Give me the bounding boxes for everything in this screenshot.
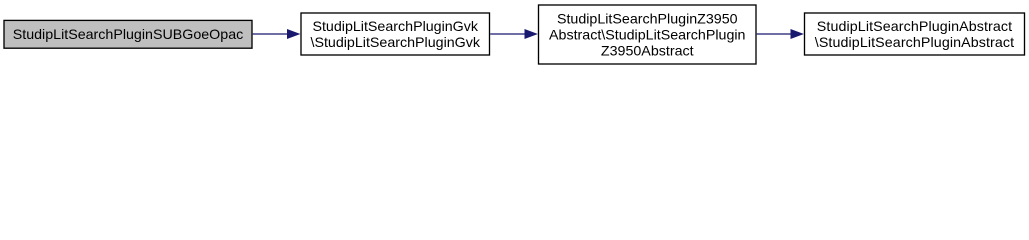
- svg-text:StudipLitSearchPluginSUBGoeOpa: StudipLitSearchPluginSUBGoeOpac: [13, 27, 244, 43]
- svg-text:StudipLitSearchPluginZ3950: StudipLitSearchPluginZ3950: [557, 12, 738, 28]
- svg-text:StudipLitSearchPluginAbstract: StudipLitSearchPluginAbstract: [817, 19, 1012, 35]
- svg-text:StudipLitSearchPluginGvk: StudipLitSearchPluginGvk: [312, 19, 478, 35]
- svg-text:Abstract\StudipLitSearchPlugin: Abstract\StudipLitSearchPlugin: [549, 28, 745, 44]
- svg-text:\StudipLitSearchPluginGvk: \StudipLitSearchPluginGvk: [310, 35, 480, 51]
- svg-text:\StudipLitSearchPluginAbstract: \StudipLitSearchPluginAbstract: [815, 35, 1014, 51]
- svg-text:Z3950Abstract: Z3950Abstract: [601, 44, 694, 60]
